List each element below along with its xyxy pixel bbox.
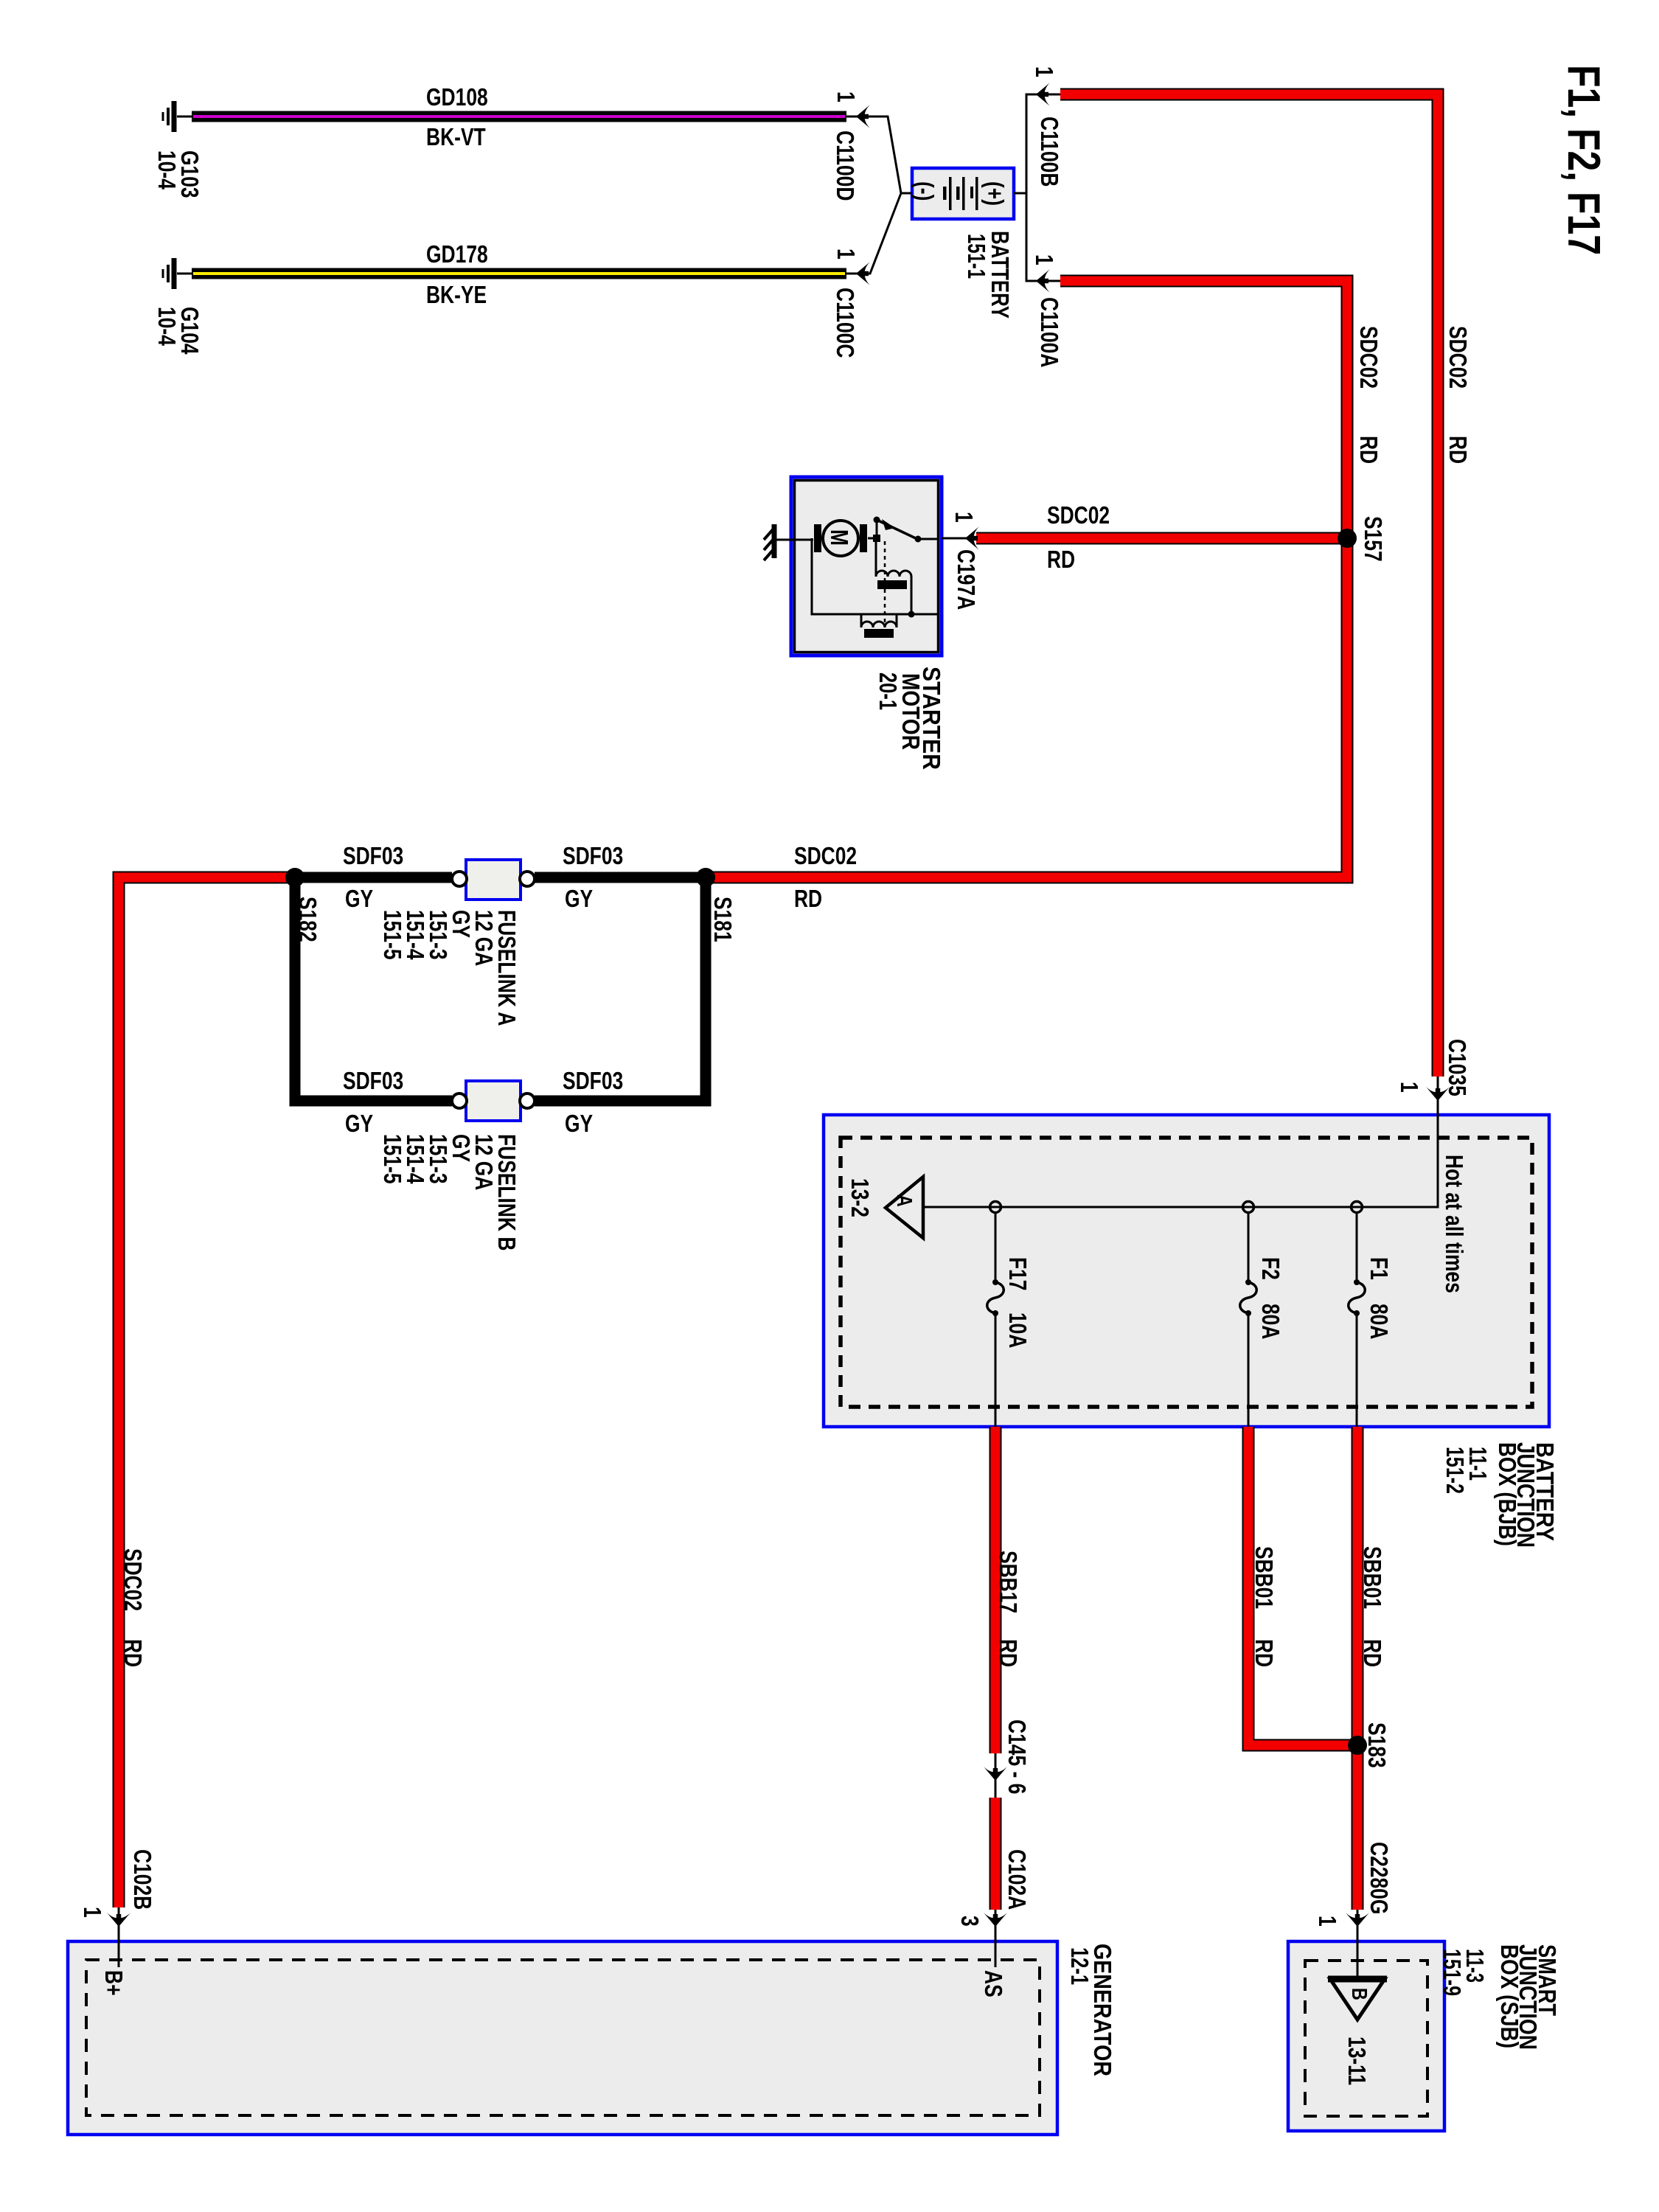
svg-text:(-): (-)	[911, 181, 939, 201]
svg-text:SBB17: SBB17	[995, 1551, 1022, 1613]
svg-text:151-9: 151-9	[1439, 1949, 1466, 1996]
svg-text:1: 1	[79, 1907, 106, 1918]
svg-text:GY: GY	[345, 885, 373, 912]
svg-text:C197A: C197A	[953, 549, 980, 610]
svg-text:RD: RD	[119, 1639, 147, 1667]
svg-text:B+: B+	[100, 1970, 128, 1996]
svg-text:F1, F2, F17: F1, F2, F17	[1558, 65, 1609, 255]
svg-text:C1100A: C1100A	[1036, 297, 1063, 367]
svg-text:3: 3	[956, 1916, 984, 1927]
svg-text:C102A: C102A	[1004, 1849, 1031, 1910]
svg-text:GD178: GD178	[426, 240, 488, 268]
svg-text:S182: S182	[294, 897, 321, 942]
svg-text:RD: RD	[1355, 436, 1382, 464]
svg-text:C2280G: C2280G	[1366, 1842, 1393, 1914]
svg-text:SDF03: SDF03	[343, 842, 403, 869]
svg-text:SDC02: SDC02	[119, 1548, 147, 1611]
svg-text:12-1: 12-1	[1066, 1947, 1093, 1985]
svg-text:F1: F1	[1366, 1257, 1393, 1280]
svg-text:151-2: 151-2	[1441, 1447, 1469, 1494]
svg-text:RD: RD	[1251, 1639, 1278, 1667]
svg-text:BK-YE: BK-YE	[426, 281, 487, 308]
svg-text:10-4: 10-4	[153, 307, 181, 346]
svg-text:SDC02: SDC02	[1047, 501, 1110, 529]
svg-text:13-2: 13-2	[846, 1178, 874, 1217]
svg-text:1: 1	[1314, 1916, 1341, 1927]
svg-text:80A: 80A	[1257, 1304, 1284, 1339]
svg-text:AS: AS	[980, 1970, 1007, 1997]
svg-text:151-1: 151-1	[963, 234, 990, 279]
svg-text:SDF03: SDF03	[563, 1067, 623, 1094]
svg-text:151-5: 151-5	[379, 910, 406, 960]
svg-text:F17: F17	[1004, 1257, 1032, 1291]
svg-text:RD: RD	[794, 885, 822, 912]
svg-text:GY: GY	[345, 1110, 373, 1137]
svg-text:S157: S157	[1360, 516, 1387, 562]
svg-text:1: 1	[1031, 66, 1058, 77]
svg-text:C1100C: C1100C	[832, 288, 859, 358]
svg-text:A: A	[892, 1194, 916, 1207]
svg-text:80A: 80A	[1366, 1304, 1393, 1339]
svg-text:SBB01: SBB01	[1251, 1546, 1278, 1609]
svg-text:S183: S183	[1363, 1722, 1391, 1768]
svg-text:C1100B: C1100B	[1036, 116, 1063, 187]
svg-text:C102B: C102B	[129, 1849, 156, 1910]
svg-text:SDC02: SDC02	[1355, 326, 1382, 389]
svg-text:SBB01: SBB01	[1359, 1546, 1386, 1609]
svg-text:10A: 10A	[1004, 1312, 1032, 1348]
svg-text:SDC02: SDC02	[794, 842, 857, 869]
svg-text:RD: RD	[1047, 546, 1075, 573]
svg-text:SDF03: SDF03	[563, 842, 623, 869]
svg-text:C1035: C1035	[1444, 1039, 1471, 1096]
svg-text:151-5: 151-5	[379, 1134, 406, 1184]
svg-text:RD: RD	[1359, 1639, 1386, 1667]
svg-text:Hot at all times: Hot at all times	[1441, 1155, 1468, 1293]
svg-text:GD108: GD108	[426, 83, 488, 111]
svg-text:C145 - 6: C145 - 6	[1004, 1719, 1031, 1794]
svg-text:RD: RD	[995, 1639, 1022, 1667]
svg-text:13-11: 13-11	[1343, 2037, 1371, 2085]
svg-text:BOX (SJB): BOX (SJB)	[1496, 1944, 1523, 2048]
svg-text:M: M	[826, 529, 853, 546]
svg-text:SDF03: SDF03	[343, 1067, 403, 1094]
svg-text:1: 1	[1396, 1082, 1423, 1093]
svg-text:S181: S181	[709, 897, 737, 942]
svg-text:C1100D: C1100D	[832, 131, 859, 201]
svg-text:F2: F2	[1257, 1257, 1284, 1280]
svg-text:SDC02: SDC02	[1444, 326, 1472, 389]
svg-text:10-4: 10-4	[153, 150, 181, 189]
svg-text:1: 1	[832, 248, 860, 260]
svg-text:RD: RD	[1444, 436, 1472, 464]
svg-text:1: 1	[1031, 254, 1058, 265]
svg-text:1: 1	[832, 91, 860, 102]
svg-text:1: 1	[950, 512, 978, 523]
svg-text:BOX (BJB): BOX (BJB)	[1494, 1442, 1521, 1546]
svg-text:GY: GY	[565, 1110, 593, 1137]
svg-text:(+): (+)	[981, 181, 1009, 206]
svg-text:20-1: 20-1	[874, 672, 902, 710]
svg-text:GY: GY	[565, 885, 593, 912]
svg-text:BK-VT: BK-VT	[426, 123, 486, 150]
svg-text:B: B	[1347, 1988, 1371, 2000]
